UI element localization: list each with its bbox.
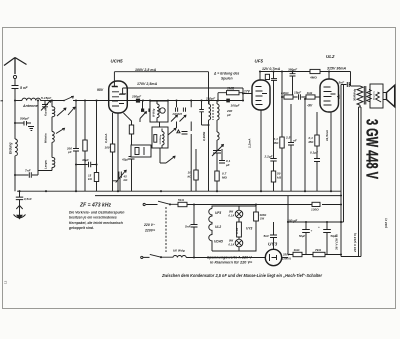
svg-text:(318 V): (318 V): [384, 218, 388, 228]
svg-text:17V: 17V: [244, 90, 251, 94]
svg-text:0,1A: 0,1A: [229, 243, 235, 247]
svg-text:Die Vorkreis- und Oszillatorsp: Die Vorkreis- und Oszillatorspulen: [69, 211, 124, 215]
svg-text:300Ω: 300Ω: [260, 213, 268, 217]
svg-text:250pF: 250pF: [131, 95, 141, 99]
svg-text:95V: 95V: [97, 88, 104, 92]
svg-text:220V=: 220V=: [144, 229, 155, 233]
svg-text:UDA5: UDA5: [214, 240, 223, 244]
svg-text:9W: 9W: [229, 210, 234, 214]
svg-text:51Ω: 51Ω: [178, 198, 185, 202]
svg-text:Langw.: Langw.: [44, 159, 48, 169]
svg-text:7kΩ: 7kΩ: [315, 248, 322, 252]
svg-text:Antenne: Antenne: [22, 104, 38, 108]
svg-text:1170Wdg: 1170Wdg: [160, 134, 162, 144]
svg-text:12: 12: [4, 280, 8, 284]
svg-text:pF: pF: [67, 150, 72, 154]
svg-text:5nF: 5nF: [339, 81, 345, 85]
svg-text:MΩ: MΩ: [222, 176, 228, 180]
svg-text:0,1A: 0,1A: [229, 214, 235, 218]
svg-text:W-Wdg: W-Wdg: [152, 108, 155, 117]
svg-text:-9V: -9V: [307, 104, 313, 108]
svg-text:1W: 1W: [260, 217, 265, 221]
svg-text:UY3: UY3: [246, 227, 253, 231]
svg-text:500pF: 500pF: [20, 117, 29, 121]
svg-text:kΩ: kΩ: [277, 176, 282, 180]
svg-text:215 V (215 V): 215 V (215 V): [353, 233, 357, 253]
svg-text:Spannungswerte f. 220 V~: Spannungswerte f. 220 V~: [207, 256, 255, 260]
svg-text:300 µF: 300 µF: [287, 219, 298, 223]
svg-text:15µF: 15µF: [294, 91, 301, 95]
svg-text:130Ω: 130Ω: [311, 207, 319, 211]
svg-text:ZF = 473 kHz: ZF = 473 kHz: [79, 203, 111, 209]
svg-text:Mittelw.: Mittelw.: [44, 133, 48, 143]
svg-text:42µF: 42µF: [121, 158, 129, 162]
svg-text:315V 36mA: 315V 36mA: [327, 67, 347, 71]
svg-text:4MΩ: 4MΩ: [309, 76, 317, 80]
svg-text:UF5: UF5: [255, 59, 264, 64]
svg-text:0,9MΩ: 0,9MΩ: [202, 131, 206, 141]
svg-text:0,2mA: 0,2mA: [104, 133, 108, 143]
svg-text:2,2µF: 2,2µF: [264, 155, 273, 159]
svg-text:11,5mA: 11,5mA: [325, 129, 329, 141]
svg-text:UY3: UY3: [268, 242, 278, 247]
svg-text:UL2: UL2: [215, 225, 221, 229]
svg-text:Zwischen dem Kondensator 2,5 n: Zwischen dem Kondensator 2,5 nF und der …: [161, 273, 322, 278]
svg-text:MΩ: MΩ: [309, 140, 315, 144]
svg-text:2,5: 2,5: [285, 136, 291, 140]
svg-text:5nF: 5nF: [185, 225, 191, 229]
svg-text:Δ = Erdung des: Δ = Erdung des: [213, 72, 239, 76]
svg-text:220 V~: 220 V~: [143, 223, 155, 227]
svg-text:3 GW 448 V: 3 GW 448 V: [363, 119, 382, 179]
svg-text:100V 2,8 mA: 100V 2,8 mA: [135, 68, 157, 72]
svg-text:+: +: [311, 229, 313, 233]
svg-text:40µF: 40µF: [81, 158, 89, 162]
svg-text:100µF: 100µF: [231, 104, 240, 108]
svg-text:pF: pF: [226, 113, 231, 117]
svg-text:5nF: 5nF: [264, 234, 270, 238]
svg-text:U0 Wdg: U0 Wdg: [173, 249, 185, 253]
svg-text:9W: 9W: [229, 239, 234, 243]
svg-text:1,2mA: 1,2mA: [248, 138, 252, 148]
svg-text:+: +: [318, 225, 320, 229]
svg-text:besitzen je ein verschiedenes: besitzen je ein verschiedenes: [69, 216, 117, 220]
svg-text:in Klammern für 220 V=: in Klammern für 220 V=: [210, 261, 253, 265]
svg-text:kΩ: kΩ: [188, 175, 193, 179]
svg-text:(280V): (280V): [282, 257, 290, 261]
svg-text:380pF: 380pF: [288, 67, 297, 71]
svg-text:gekoppelt sind.: gekoppelt sind.: [68, 226, 94, 230]
svg-text:0,1µF: 0,1µF: [310, 151, 318, 155]
svg-text:100: 100: [105, 146, 110, 150]
svg-text:Dauerm.: Dauerm.: [374, 91, 376, 100]
svg-text:7nF: 7nF: [25, 168, 31, 172]
svg-text:nF: nF: [293, 139, 297, 143]
svg-text:0,5nF: 0,5nF: [24, 197, 32, 201]
svg-text:3600Wdg: 3600Wdg: [353, 89, 357, 101]
svg-text:Erdung: Erdung: [9, 143, 13, 154]
svg-text:12V 0,7mA: 12V 0,7mA: [262, 67, 281, 71]
svg-text:Kernpaket, die leicht mechanis: Kernpaket, die leicht mechanisch: [69, 221, 123, 225]
svg-text:Kurzw.: Kurzw.: [44, 107, 48, 116]
svg-text:5-15pF: 5-15pF: [41, 96, 51, 100]
svg-text:UL2: UL2: [326, 54, 335, 59]
svg-text:36 V (36 V): 36 V (36 V): [335, 234, 339, 250]
svg-text:µF: µF: [225, 163, 230, 167]
svg-text:MΩ: MΩ: [274, 141, 280, 145]
svg-text:50µF: 50µF: [299, 234, 306, 238]
svg-text:170V 2,5mA: 170V 2,5mA: [137, 82, 158, 86]
svg-text:1kΩ: 1kΩ: [294, 248, 301, 252]
svg-text:Spulen: Spulen: [221, 77, 233, 81]
svg-text:UCH5: UCH5: [111, 59, 124, 64]
svg-text:220pF: 220pF: [205, 96, 215, 100]
svg-text:1MΩ: 1MΩ: [227, 86, 235, 90]
svg-text:U 3/5: U 3/5: [236, 227, 239, 234]
svg-text:5 nF: 5 nF: [20, 86, 28, 90]
svg-text:UF5: UF5: [215, 211, 221, 215]
svg-text:1kΩ: 1kΩ: [307, 91, 313, 95]
